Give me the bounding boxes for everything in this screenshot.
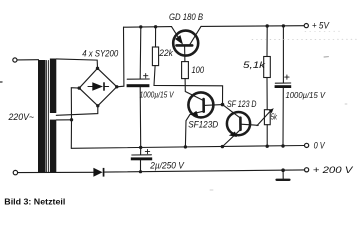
transformer core lines xyxy=(46,61,48,173)
capacitor C3 2u/250V lead top xyxy=(140,147,142,154)
node output cap top xyxy=(282,24,285,27)
capacitor C2 1000u/15V output lead top xyxy=(282,26,284,83)
bridge inner diode xyxy=(88,86,92,88)
svg-text:4 x SY200: 4 x SY200 xyxy=(82,48,118,58)
svg-text:2µ/250 V: 2µ/250 V xyxy=(149,161,184,171)
node secondary tap junction xyxy=(70,118,73,121)
scan noise dotted row under +5V xyxy=(252,38,359,40)
svg-text:SF123D: SF123D xyxy=(188,120,218,130)
wire bridge right corner up to raw rail xyxy=(117,27,124,87)
transistor Q1 collector lead to +5V rail xyxy=(190,26,201,44)
node ground tap on 200V rail xyxy=(281,168,285,172)
node bridge bottom corner xyxy=(96,104,99,107)
node driver base / error collector xyxy=(221,103,225,107)
capacitor C3 plates xyxy=(132,154,152,156)
node 2u cap top xyxy=(139,146,142,149)
wire 22k bottom to driver base riser xyxy=(154,66,223,105)
transistor Q1 GD180B circle xyxy=(173,31,198,56)
transformer T1 primary winding xyxy=(38,60,46,172)
resistor R3 5.1k body xyxy=(264,57,271,78)
capacitor C2 lead bottom to 0V xyxy=(282,88,284,146)
wire 5.1k bottom to pot top xyxy=(266,78,268,110)
rail +5V output top xyxy=(201,25,304,28)
rail mains / +200V bottom xyxy=(18,171,94,173)
svg-text:0 V: 0 V xyxy=(314,141,326,151)
svg-text:GD 180 B: GD 180 B xyxy=(169,12,203,22)
svg-text:220V~: 220V~ xyxy=(8,112,34,122)
terminal 220V bottom-left xyxy=(13,170,17,174)
capacitor C1 1000u/15V lead top xyxy=(139,27,142,79)
capacitor C2 polarity plus xyxy=(285,75,289,79)
rail +200V after diode xyxy=(104,170,304,172)
transistor Q2 base bar xyxy=(202,99,205,112)
rail 0V xyxy=(71,146,304,149)
transistor Q3 base bar xyxy=(239,118,242,130)
wire 100 bottom to driver collector xyxy=(185,79,203,101)
svg-text:Bild 3: Netzteil: Bild 3: Netzteil xyxy=(4,197,65,207)
terminal 220V top-left xyxy=(13,58,17,62)
capacitor C1 polarity plus xyxy=(144,74,148,78)
potentiometer R4 wiper arrow xyxy=(257,109,272,125)
svg-text:5,1k: 5,1k xyxy=(243,60,266,70)
svg-text:22k: 22k xyxy=(158,48,173,58)
svg-text:+ 200 V: + 200 V xyxy=(313,165,354,175)
transistor Q1 emitter lead from raw rail xyxy=(172,27,179,38)
transistor Q3 SF123D error amp circle xyxy=(227,112,250,135)
node Q3 emitter on 0V xyxy=(221,145,224,148)
transformer T1 secondary winding lower section xyxy=(50,120,56,173)
svg-text:+ 5V: + 5V xyxy=(312,21,330,31)
transistor Q3 emitter lead to 0V xyxy=(222,130,240,147)
capacitor C3 lead bottom to 200V rail xyxy=(140,160,142,171)
diode D1 xyxy=(93,168,102,177)
capacitor C2 plates xyxy=(275,82,290,84)
terminal +200V xyxy=(305,168,309,172)
svg-text:1000µ/15 V: 1000µ/15 V xyxy=(286,91,326,100)
transistor Q1 base bar xyxy=(177,44,193,47)
wire secondary upper tap to bridge bottom corner xyxy=(56,106,98,116)
capacitor C3 polarity plus xyxy=(145,149,149,153)
transistor Q2 emitter lead to 0V xyxy=(185,111,203,147)
capacitor C1 1000u/15V plates xyxy=(127,78,149,80)
transistor Q1 base lead down xyxy=(184,47,186,62)
transistor Q2 SF123D driver circle xyxy=(188,92,213,117)
resistor R2 100 body xyxy=(182,62,189,79)
wire mains top to primary xyxy=(17,59,38,61)
node filter cap top xyxy=(139,25,142,28)
wire pot bottom to 0V xyxy=(266,125,268,147)
node pot bottom on 0V xyxy=(266,145,269,148)
transistor Q3 base lead to pot wiper xyxy=(241,124,259,125)
transistor Q2 emitter arrow NPN xyxy=(190,111,198,117)
bridge rectifier 4x SY200 diamond xyxy=(79,68,117,106)
terminal 0V xyxy=(305,143,309,147)
potentiometer R4 5k body xyxy=(264,110,270,125)
node bridge right corner xyxy=(115,85,118,88)
node Q2 emitter on 0V xyxy=(184,145,187,148)
transistor Q3 collector lead from base node xyxy=(223,105,241,118)
scan speck left edge xyxy=(0,81,2,83)
terminal +5V xyxy=(304,24,308,28)
scan speck marks xyxy=(324,56,329,58)
node 2u cap bottom xyxy=(139,170,142,173)
svg-text:1000µ/15 V: 1000µ/15 V xyxy=(140,90,175,99)
svg-text:5k: 5k xyxy=(271,112,278,121)
svg-text:SF 123 D: SF 123 D xyxy=(227,99,257,109)
ground xyxy=(282,170,284,179)
transistor Q2 base lead right xyxy=(204,104,223,107)
node C2 bottom on 0V xyxy=(281,144,284,147)
wire raw supply top rail xyxy=(124,26,172,29)
node bridge top corner xyxy=(96,67,99,70)
wire secondary lower tap to 0V node xyxy=(56,119,71,121)
capacitor C1 lead bottom to 0V xyxy=(139,87,142,147)
wire secondary top to bridge top corner xyxy=(56,59,97,68)
wire bridge left corner down to 0V rail xyxy=(71,88,79,149)
transistor Q1 emitter arrow PNP xyxy=(175,35,183,45)
node 5.1k top xyxy=(266,24,269,27)
transistor Q3 emitter arrow NPN xyxy=(229,132,237,138)
node bridge left corner xyxy=(78,86,81,89)
svg-text:100: 100 xyxy=(192,65,205,75)
node 22k top xyxy=(154,25,157,28)
resistor R1 22k body xyxy=(152,47,158,66)
transformer T1 secondary winding upper section xyxy=(50,59,56,114)
